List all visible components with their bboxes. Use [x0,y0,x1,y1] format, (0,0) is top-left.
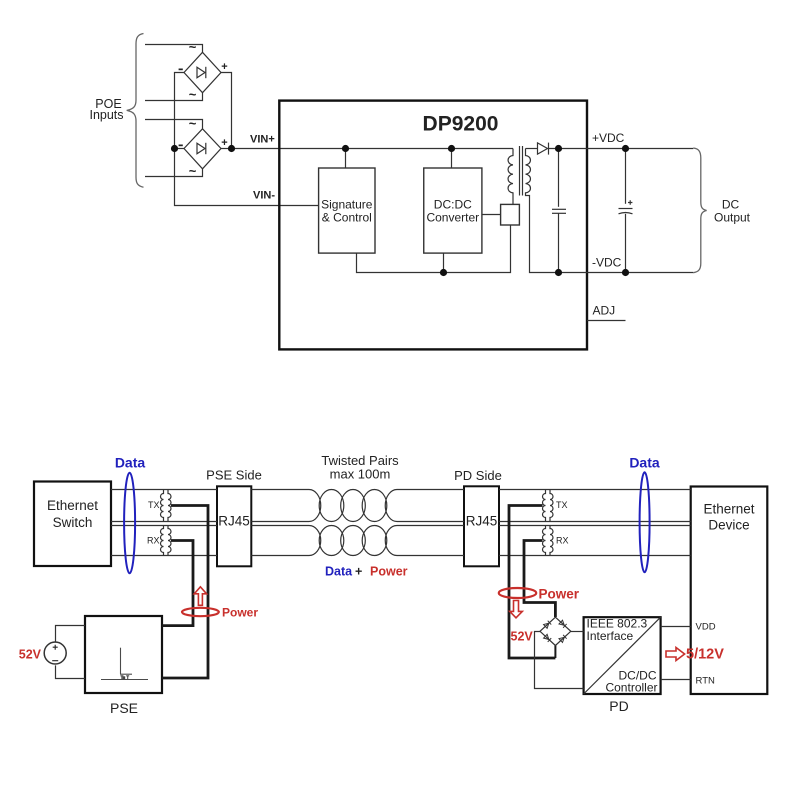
svg-text:5/12V: 5/12V [686,647,724,663]
svg-text:Power: Power [370,565,408,579]
svg-text:Device: Device [708,518,749,533]
svg-text:+VDC: +VDC [592,131,625,145]
svg-text:& Control: & Control [322,211,372,225]
svg-text:PSE Side: PSE Side [206,468,262,483]
svg-text:+: + [221,137,227,149]
svg-text:RTN: RTN [696,676,715,687]
svg-text:+: + [221,61,227,73]
svg-text:Ethernet: Ethernet [47,498,98,513]
svg-text:Power: Power [539,586,580,601]
svg-text:Interface: Interface [587,629,634,643]
svg-text:Data: Data [325,565,353,579]
svg-text:Converter: Converter [426,211,479,225]
svg-text:Power: Power [222,605,258,619]
svg-text:Signature: Signature [321,198,373,212]
svg-text:Controller: Controller [605,681,657,695]
svg-text:PSE: PSE [110,700,138,716]
svg-text:~: ~ [189,40,197,55]
svg-text:RX: RX [147,536,160,546]
svg-text:Data: Data [115,455,146,471]
svg-text:TX: TX [148,500,160,510]
svg-text:DC: DC [722,198,740,212]
svg-text:PD Side: PD Side [454,468,502,483]
svg-text:DC:DC: DC:DC [434,198,472,212]
svg-text:Output: Output [714,211,751,225]
svg-text:ADJ: ADJ [593,304,616,318]
svg-text:Inputs: Inputs [89,108,123,122]
svg-text:VDD: VDD [696,622,716,633]
svg-text:RJ45: RJ45 [466,514,498,529]
svg-text:Switch: Switch [53,515,93,530]
svg-text:Ethernet: Ethernet [703,502,754,517]
svg-text:+: + [355,565,362,579]
svg-text:VIN+: VIN+ [250,134,275,146]
svg-text:max 100m: max 100m [330,467,391,482]
svg-text:~: ~ [189,116,197,131]
svg-text:PD: PD [609,698,628,714]
svg-text:52V: 52V [19,648,42,662]
svg-text:-VDC: -VDC [592,256,622,270]
svg-text:52V: 52V [511,629,534,643]
svg-text:DP9200: DP9200 [423,113,499,136]
svg-text:Data: Data [629,455,660,471]
svg-text:~: ~ [189,164,197,179]
svg-text:TX: TX [556,500,568,510]
svg-text:RJ45: RJ45 [218,514,250,529]
svg-text:RX: RX [556,536,569,546]
svg-text:VIN-: VIN- [253,189,275,201]
svg-text:~: ~ [189,87,197,102]
